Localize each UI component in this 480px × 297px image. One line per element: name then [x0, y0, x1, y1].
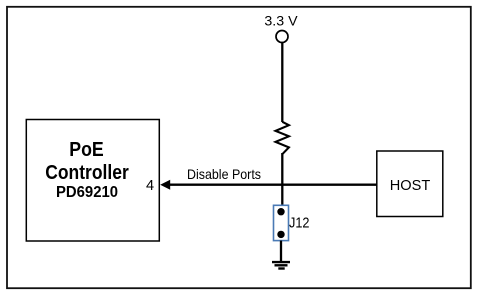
jumper J12 pin 1: [277, 208, 284, 215]
wire from resistor to jumper J12 (through node): [281, 153, 283, 206]
wire from 3.3V terminal to resistor: [281, 43, 283, 122]
svg-text:3.3 V: 3.3 V: [264, 14, 298, 30]
HOST box: [377, 151, 443, 217]
svg-text:4: 4: [146, 178, 154, 194]
ground: [272, 262, 290, 268]
jumper J12 pin 2: [277, 231, 284, 238]
resistor R1: [276, 122, 289, 154]
wire from jumper J12 to ground: [280, 241, 282, 261]
power terminal circle 3.3V: [276, 31, 288, 43]
svg-text:HOST: HOST: [390, 177, 431, 194]
svg-text:Disable Ports: Disable Ports: [187, 166, 261, 182]
svg-text:PoE: PoE: [69, 139, 104, 161]
jumper J12 body: [274, 205, 289, 240]
svg-text:Controller: Controller: [45, 162, 129, 184]
wire node to PoE controller pin 4: [169, 184, 283, 186]
svg-text:PD69210: PD69210: [56, 184, 118, 201]
svg-text:J12: J12: [289, 215, 310, 231]
PoE controller U1 box: [26, 120, 159, 242]
arrowhead into PoE controller pin 4: [160, 180, 170, 190]
wire node to HOST: [282, 184, 377, 186]
